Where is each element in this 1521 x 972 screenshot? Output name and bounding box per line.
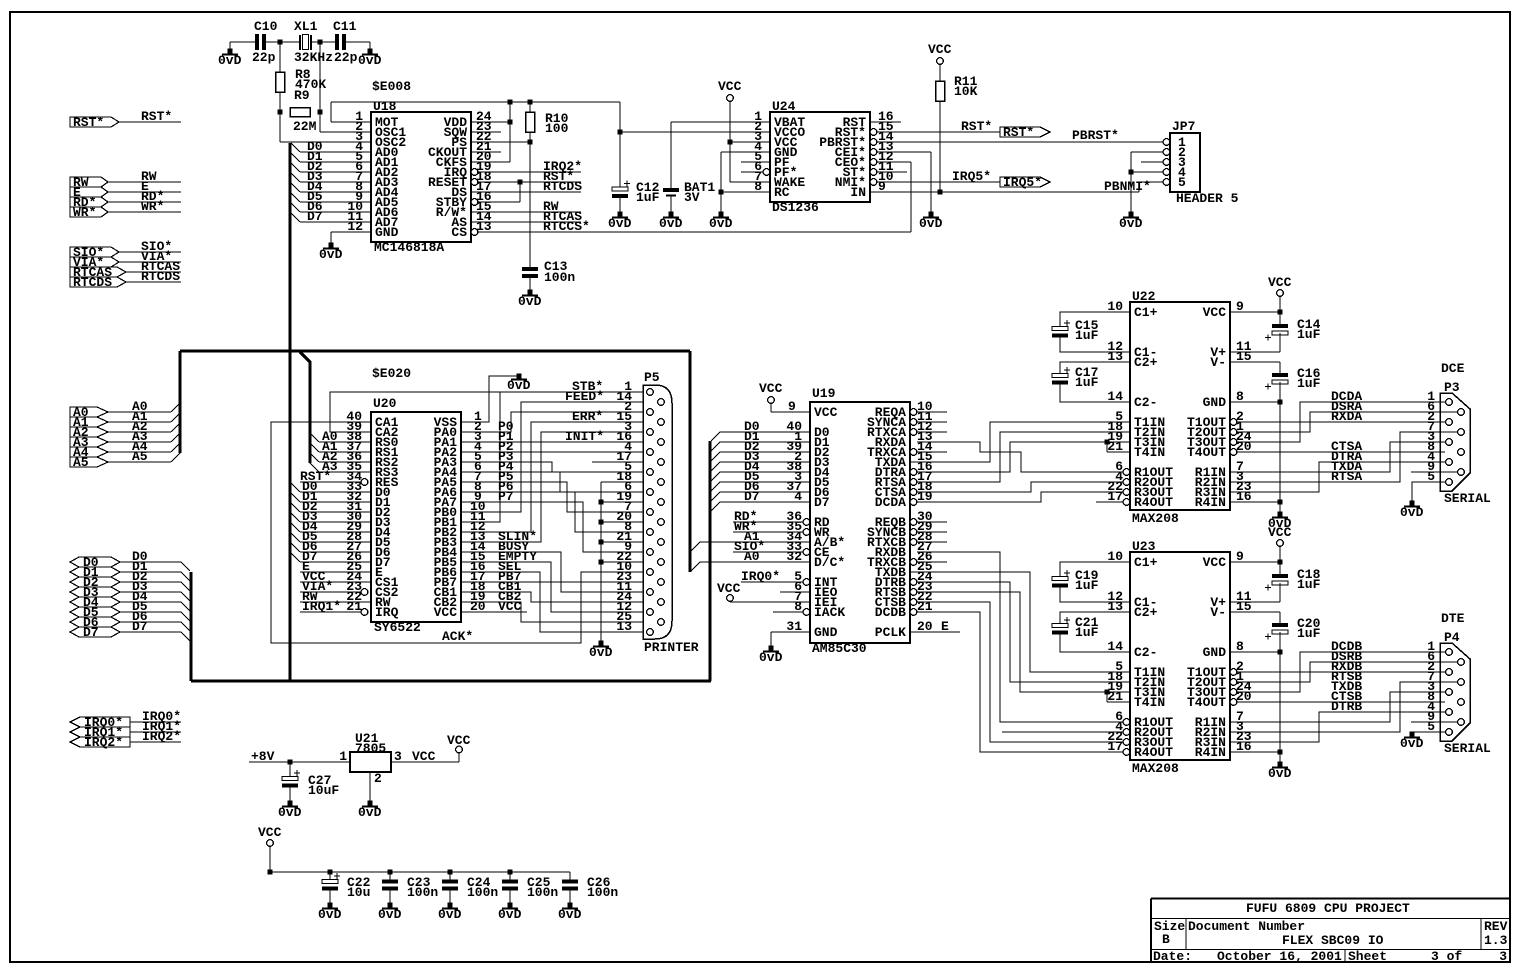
P3 pin 3: [1446, 439, 1453, 446]
wire RTSB to U23 T3IN/T4IN: [917, 592, 1130, 692]
battery BAT1 3V: [663, 188, 679, 192]
wire P0 to P5 pin 2: [461, 412, 646, 432]
wire DTRA to U22 T3IN/T4IN: [917, 442, 1130, 472]
wire U22 C2+ loop: [1060, 362, 1130, 374]
svg-text:3: 3: [1499, 949, 1507, 964]
JP7 pin 2 bubble: [1163, 149, 1170, 156]
svg-text:DTE: DTE: [1441, 611, 1465, 626]
wire WR* port: [108, 211, 181, 213]
pin bubble U19 RTXCA: [910, 429, 917, 436]
wire VCC to R11: [939, 64, 941, 81]
pin bubble U19 CTSA: [910, 489, 917, 496]
svg-text:Sheet: Sheet: [1348, 949, 1387, 964]
pin bubble U24 PBRST*: [870, 139, 877, 146]
svg-text:100n: 100n: [467, 885, 498, 900]
junction gnd chain pin 20: [599, 520, 604, 525]
wire C11 to ground: [346, 41, 370, 43]
P5 pin 22: [658, 559, 665, 566]
pin bubble U24 PF*: [763, 169, 770, 176]
capacitor C27 10uF: [289, 762, 291, 777]
resistor R10 100: [529, 102, 531, 112]
stub PF* pin 6: [741, 171, 763, 173]
svg-text:3V: 3V: [684, 190, 700, 205]
JP7 pin 1 bubble: [1163, 139, 1170, 146]
wire riser x510 VDD-CKFS: [509, 102, 511, 162]
P5 pin 5: [647, 469, 654, 476]
capacitor C23 100n: [389, 872, 391, 880]
wire U23 T4OUT to P4 pin 8 (CTSB): [1237, 701, 1445, 703]
svg-text:Date:: Date:: [1153, 949, 1192, 964]
port E: [70, 187, 108, 197]
svg-text:10K: 10K: [954, 84, 978, 99]
stub U19 unconnected pin: [917, 421, 947, 423]
wire CTSA to U22 R2OUT: [917, 482, 1123, 492]
wire VDD rail corner down to U24 VCCO: [619, 102, 621, 132]
P4 pin 9: [1458, 719, 1465, 726]
wire PB4 BUSY to P5 pin 11: [461, 552, 646, 592]
svg-text:1uF: 1uF: [1297, 626, 1321, 641]
stub SQW pin 23: [471, 131, 501, 133]
pin bubble U19 REQB: [910, 519, 917, 526]
pin bubble U19 RTXCB: [910, 539, 917, 546]
U22 R-OUT pin bubble: [1123, 499, 1130, 506]
stub ST* pin 11: [877, 171, 907, 173]
port symbol IRQ5*: [1000, 177, 1050, 187]
wire C23 to ground: [389, 890, 391, 905]
wire P5 to P5 pin 7: [461, 482, 646, 512]
wire U20 CS2 VIA*: [300, 591, 361, 593]
pin bubble U19 SYNCB: [910, 529, 917, 536]
junction C22 rail: [268, 870, 273, 875]
svg-text:DCDA: DCDA: [875, 495, 906, 510]
pin bubble U19 CE: [803, 549, 810, 556]
P5 pin 4: [647, 449, 654, 456]
power VCC above R11: [937, 58, 944, 65]
resistor R11 10K: [936, 81, 945, 101]
capacitor C16 1uF: [1272, 373, 1288, 377]
svg-text:0vD: 0vD: [608, 216, 632, 231]
pin bubble U24 NMI*: [870, 179, 877, 186]
svg-text:GND: GND: [375, 225, 399, 240]
pin bubble U19 RTSB: [910, 589, 917, 596]
svg-text:22p: 22p: [252, 50, 276, 65]
wire PB5 EMPTY to P5 pin 12: [461, 562, 646, 612]
wire U20 RST* net: [300, 481, 361, 483]
wire C19 to C1-: [1060, 588, 1130, 603]
svg-text:VCC: VCC: [258, 825, 282, 840]
junction C27: [288, 760, 293, 765]
svg-text:R4OUT: R4OUT: [1134, 745, 1173, 760]
wire C13 to ground: [529, 278, 531, 292]
wire node to R8: [279, 42, 281, 72]
svg-text:DCDB: DCDB: [875, 605, 906, 620]
svg-text:U19: U19: [812, 386, 836, 401]
pin bubble U24 CEO*: [870, 159, 877, 166]
svg-text:VCC: VCC: [814, 405, 838, 420]
wire C16 to GND chain: [1279, 382, 1281, 514]
wire VCC to U23 pin 9: [1279, 546, 1281, 575]
svg-text:B: B: [1162, 932, 1170, 947]
wire IRQ1* port: [130, 731, 181, 733]
port IRQ1* (output): [70, 727, 130, 737]
svg-text:0vD: 0vD: [919, 216, 943, 231]
stub U19 IACK: [773, 611, 803, 613]
svg-text:V-: V-: [1210, 605, 1226, 620]
pin bubble U19 TRXCA: [910, 449, 917, 456]
wire D4 port to data bus: [120, 601, 181, 603]
wire +8V to U21 pin 1: [249, 761, 350, 763]
ground 0VD U24 GND: [719, 212, 724, 217]
wire ACK* net CA1 to P5 pin 10: [271, 422, 646, 643]
capacitor C15 1uF: [1052, 327, 1068, 331]
svg-text:U22: U22: [1132, 289, 1156, 304]
P5 pin 6: [647, 489, 654, 496]
svg-text:IRQ1*: IRQ1*: [302, 599, 341, 614]
svg-text:C2+: C2+: [1134, 605, 1158, 620]
ground 0VD right of C11: [369, 42, 371, 51]
port RW: [70, 177, 108, 187]
port D4 bidirectional: [70, 597, 120, 607]
wire VDD rail: [331, 101, 620, 103]
junction C22 rail: [328, 870, 333, 875]
svg-text:A5: A5: [132, 449, 148, 464]
junction C12/VCCO: [618, 130, 623, 135]
svg-text:10u: 10u: [347, 885, 370, 900]
svg-text:HEADER 5: HEADER 5: [1176, 191, 1239, 206]
pin bubble U19 DCDA: [910, 499, 917, 506]
svg-text:1: 1: [339, 749, 347, 764]
wire RW from pin 15: [471, 211, 581, 213]
wire C10 to XL1 node: [266, 41, 300, 43]
ground 0VD C24: [448, 903, 453, 908]
IC U22 MAX208: [1130, 302, 1230, 510]
P3 pin 4: [1446, 459, 1453, 466]
wire U20 RW: [300, 601, 371, 603]
wire C18 to V+: [1279, 583, 1281, 602]
pin bubble U24 RST*: [870, 129, 877, 136]
svg-text:31: 31: [786, 619, 802, 634]
wire down to C12: [619, 132, 621, 187]
svg-text:$E020: $E020: [372, 366, 411, 381]
wire VCC to U22 pin 9: [1279, 296, 1281, 325]
wire U21 pin 3 VCC out: [391, 761, 459, 763]
wire C20 to GND chain: [1279, 632, 1281, 764]
P5 pin 18: [658, 479, 665, 486]
pin bubble U19 REQA: [910, 409, 917, 416]
svg-text:D7: D7: [132, 619, 148, 634]
wire OSC1 net (XL1 right node to pin 2): [319, 42, 321, 112]
svg-text:October 16, 2001: October 16, 2001: [1217, 949, 1342, 964]
pin bubble U24 CEI*: [870, 149, 877, 156]
port D0 bidirectional: [70, 557, 120, 567]
wire PS pin 22: [471, 141, 530, 143]
U23 R-OUT pin bubble: [1123, 749, 1130, 756]
wire CEO* pin 12 (RTCCS*): [877, 161, 911, 163]
P4 pin 8: [1458, 699, 1465, 706]
wire RTCAS port: [126, 271, 181, 273]
svg-text:C10: C10: [254, 19, 278, 34]
wire P3 pin 3 TXDA to U22 R1IN: [1230, 442, 1445, 472]
wire U22 T1OUT to P3 pin 2 (RXDA): [1237, 421, 1445, 423]
ground 0VD BAT1: [669, 212, 674, 217]
pin bubble U18 IRQ: [471, 169, 478, 176]
wire JP7 pin 2 to ground chain: [1131, 151, 1163, 153]
junction C23 rail: [388, 870, 393, 875]
P5 pin 14: [658, 399, 665, 406]
U22 T-OUT pin bubble: [1230, 429, 1237, 436]
stub U19 PCLK: [910, 631, 960, 633]
port WR*: [70, 207, 108, 217]
P3 pin 1: [1446, 399, 1453, 406]
svg-text:IRQ5*: IRQ5*: [952, 169, 991, 184]
wire U22 T2OUT to P3 pin 6 (DSRA): [1237, 412, 1457, 432]
wire PB7 to P5 pin 23: [461, 581, 646, 583]
capacitor C25 100n: [509, 872, 511, 880]
svg-text:A5: A5: [73, 455, 89, 470]
svg-text:PBNMI*: PBNMI*: [1104, 179, 1151, 194]
port D2 bidirectional: [70, 577, 120, 587]
port D7 bidirectional: [70, 627, 120, 637]
wire V- to C16: [1230, 361, 1280, 363]
IC U18 MC146818A: [371, 112, 471, 242]
pin bubble U19 RTSA: [910, 479, 917, 486]
power VCC U22: [1277, 290, 1284, 297]
wire C27 to ground: [289, 787, 291, 803]
svg-text:VCC: VCC: [759, 381, 783, 396]
data bus right vertical to U19: [709, 441, 712, 681]
svg-text:0vD: 0vD: [1400, 736, 1424, 751]
svg-text:VCC: VCC: [434, 605, 458, 620]
wire U23 C2+ loop: [1060, 612, 1130, 624]
svg-text:RC: RC: [774, 185, 790, 200]
wire D6 port to data bus: [120, 621, 181, 623]
svg-text:RST*: RST*: [1003, 125, 1034, 140]
svg-text:T4OUT: T4OUT: [1187, 445, 1226, 460]
wire RTSA to U22 T2IN: [917, 432, 1130, 482]
stub U20 VCC pin 20: [461, 611, 527, 613]
svg-text:0vD: 0vD: [438, 907, 462, 922]
stub U19 unconnected pin: [917, 541, 947, 543]
svg-text:U24: U24: [772, 99, 796, 114]
wire U23 T3OUT to P4 pin 1 (DCDB): [1237, 652, 1445, 692]
port RTCDS: [70, 277, 126, 287]
wire P3 pin 5 to ground: [1412, 482, 1445, 502]
svg-text:AM85C30: AM85C30: [812, 641, 867, 656]
junction VDD rail at R10: [528, 100, 533, 105]
svg-text:PRINTER: PRINTER: [644, 640, 699, 655]
svg-text:DCE: DCE: [1441, 361, 1465, 376]
P5 pin 24: [658, 599, 665, 606]
svg-text:FEED*: FEED*: [565, 389, 604, 404]
wire U23 T2OUT to P4 pin 6 (DSRB): [1237, 662, 1457, 682]
P4 pin 2: [1446, 669, 1453, 676]
svg-text:P4: P4: [1444, 630, 1460, 645]
JP7 pin 4 bubble: [1163, 169, 1170, 176]
svg-text:PCLK: PCLK: [875, 625, 906, 640]
wire U22 T3OUT to P3 pin 1 (DCDA): [1237, 402, 1445, 442]
junction C25 rail: [508, 870, 513, 875]
wire DCDB to U23 R4OUT: [917, 612, 1123, 752]
svg-text:32KHz: 32KHz: [294, 50, 333, 65]
wire P3 pin 7 RTSA to U22 R2IN: [1230, 432, 1457, 482]
wire P3 pin 4 DTRA to U22 R3IN: [1230, 462, 1445, 492]
ground 0VD P4: [1410, 732, 1415, 737]
svg-text:GND: GND: [1203, 645, 1227, 660]
wire D0 port to data bus: [120, 561, 181, 563]
capacitor C26 100n: [569, 872, 571, 880]
capacitor C18 1uF: [1272, 574, 1288, 578]
stub U19 unconnected pin: [917, 411, 947, 413]
svg-text:RST*: RST*: [961, 119, 992, 134]
svg-text:R9: R9: [294, 88, 310, 103]
svg-text:0vD: 0vD: [218, 53, 242, 68]
svg-text:ACK*: ACK*: [442, 629, 473, 644]
svg-text:RST*: RST*: [73, 115, 104, 130]
wire E port: [108, 191, 181, 193]
svg-text:C2+: C2+: [1134, 355, 1158, 370]
svg-text:C2-: C2-: [1134, 395, 1157, 410]
junction R11/IN: [938, 190, 943, 195]
P5 pin 10: [647, 569, 654, 576]
svg-text:VCC: VCC: [1268, 525, 1292, 540]
junction node XL1/C11: [318, 40, 323, 45]
stub U23 R2OUT: [1002, 731, 1123, 733]
junction node C10/XL1/R8: [278, 40, 283, 45]
svg-text:U18: U18: [373, 99, 397, 114]
junction C24 rail: [448, 870, 453, 875]
stub U19 unconnected pin: [917, 521, 947, 523]
svg-text:0vD: 0vD: [709, 216, 733, 231]
svg-text:REV: REV: [1484, 919, 1508, 934]
junction RC row/GND net: [719, 190, 724, 195]
pin bubble U19 CTSB: [910, 599, 917, 606]
P5 pin 12: [647, 609, 654, 616]
wire U23 T1OUT to P4 pin 2 (RXDB): [1237, 671, 1445, 673]
port symbol RST*: [1000, 127, 1050, 137]
wire C21 to C2-: [1060, 635, 1130, 653]
wire D7 port to data bus: [120, 631, 181, 633]
port RST* (left): [70, 117, 119, 127]
wire CB1 to P5 pin 24: [461, 592, 646, 602]
pin bubble U20 CS2: [361, 589, 368, 596]
U22 T-OUT pin bubble: [1230, 419, 1237, 426]
connector P4 DB9 shell: [1440, 643, 1470, 741]
svg-text:100n: 100n: [407, 885, 438, 900]
svg-text:0vD: 0vD: [759, 650, 783, 665]
ground 0VD U23 chain: [1278, 762, 1283, 767]
wire DCDA to U22 R3OUT: [917, 492, 1123, 502]
wire RTCDS from pin 17: [471, 191, 581, 193]
svg-text:1uF: 1uF: [1297, 577, 1321, 592]
P5 pin 1: [647, 389, 654, 396]
wire A1 port to address bus: [108, 421, 171, 423]
junction U23 T3IN/T4IN tie: [1105, 690, 1110, 695]
ground 0VD left of C10: [229, 42, 231, 51]
svg-text:IACK: IACK: [814, 605, 845, 620]
port A3: [70, 437, 108, 447]
IC U19 AM85C30: [810, 402, 910, 643]
wire P4 pin 3 TXDB... wait RTSB label; pin7 to U23 R2IN: [1230, 682, 1457, 732]
wire U19 SIO*: [733, 551, 803, 553]
resistor R9 22M: [290, 108, 310, 117]
junction R9 right: [318, 110, 323, 115]
address bus right vertical to U19: [689, 351, 692, 572]
wire PB6 SEL to P5 pin 13: [461, 572, 646, 632]
data bus bottom horizontal: [191, 680, 711, 683]
wire VCC to rail: [269, 846, 271, 872]
svg-text:0vD: 0vD: [319, 247, 343, 262]
svg-text:100n: 100n: [544, 270, 575, 285]
junction U22 T3IN/T4IN tie: [1105, 440, 1110, 445]
svg-text:MAX208: MAX208: [1132, 511, 1179, 526]
svg-text:ERR*: ERR*: [572, 409, 603, 424]
svg-text:22p: 22p: [334, 50, 358, 65]
wire DTRB to U23 T2IN: [917, 582, 1130, 682]
wire A2 port to address bus: [108, 431, 171, 433]
wire U20 RS0-RS3 from address bus branch: [319, 441, 371, 443]
wire IRQ2* port: [130, 741, 181, 743]
P5 pin 19: [658, 499, 665, 506]
junction RESET/STBY tie: [518, 180, 523, 185]
wire RXDB to U23 R1OUT: [917, 552, 1123, 722]
wire C25 to ground: [509, 890, 511, 905]
stub U19 unconnected pin: [917, 531, 947, 533]
power VCC output: [456, 746, 463, 753]
junction JP7 pin 4 tie: [1129, 170, 1134, 175]
ground 0VD JP7: [1129, 212, 1134, 217]
port A1: [70, 417, 108, 427]
wire TXDB to U23 T1IN: [910, 572, 1130, 672]
svg-text:U20: U20: [373, 396, 397, 411]
svg-text:0vD: 0vD: [1268, 766, 1292, 781]
svg-text:A0: A0: [744, 549, 760, 564]
svg-text:4: 4: [794, 489, 802, 504]
ground 0VD C12: [618, 212, 623, 217]
junction U22 R4IN row: [1278, 500, 1283, 505]
svg-text:GND: GND: [1203, 395, 1227, 410]
wire CKFS pin 20: [471, 161, 510, 163]
svg-text:D7: D7: [307, 209, 323, 224]
capacitor C10: [255, 34, 259, 50]
wire IN pin 9 / PBNMI* to JP7 pin 5: [870, 191, 1139, 193]
svg-text:T4IN: T4IN: [1134, 695, 1165, 710]
port D3 bidirectional: [70, 587, 120, 597]
P5 pin 7: [647, 509, 654, 516]
svg-text:0vD: 0vD: [318, 907, 342, 922]
svg-text:V-: V-: [1210, 355, 1226, 370]
wire C14 to V+: [1279, 333, 1281, 352]
junction VDD rail at x510: [508, 100, 513, 105]
wire D2 port to data bus: [120, 581, 181, 583]
P5 pin 21: [658, 539, 665, 546]
svg-text:13: 13: [616, 619, 632, 634]
svg-text:C1+: C1+: [1134, 555, 1158, 570]
svg-text:WR*: WR*: [141, 199, 164, 214]
pin bubble U19 SYNCA: [910, 419, 917, 426]
wire PB1 to P5 pin 1 riser: [461, 392, 500, 522]
ground 0VD U22 chain: [1278, 512, 1283, 517]
svg-text:U23: U23: [1132, 539, 1156, 554]
wire P2 to P5 pin 4: [461, 451, 646, 453]
ground 0VD C26: [568, 903, 573, 908]
svg-text:9: 9: [788, 399, 796, 414]
svg-text:RST*: RST*: [141, 109, 172, 124]
svg-text:SERIAL: SERIAL: [1444, 491, 1491, 506]
P3 pin 9: [1458, 469, 1465, 476]
junction U23 R4IN row: [1278, 750, 1283, 755]
ground 0VD U19: [769, 646, 774, 651]
wire A3 port to address bus: [108, 441, 171, 443]
